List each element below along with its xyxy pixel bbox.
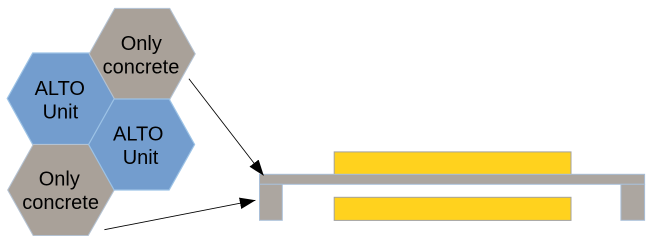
svg-text:Only: Only bbox=[39, 169, 80, 191]
right support column bbox=[621, 184, 645, 220]
svg-text:ALTO: ALTO bbox=[35, 78, 85, 100]
bottom yellow slab bbox=[334, 197, 571, 220]
hexagon H3 blue "ALTO Unit" (middle-right) bbox=[89, 99, 195, 190]
horizontal deck bar bbox=[260, 174, 645, 184]
left support column bbox=[260, 184, 283, 220]
svg-text:Only: Only bbox=[121, 33, 162, 55]
svg-text:Unit: Unit bbox=[123, 147, 159, 169]
svg-text:concrete: concrete bbox=[22, 192, 99, 214]
hexagon H4 gray "Only concrete" (bottom-left) bbox=[8, 145, 115, 236]
svg-text:concrete: concrete bbox=[103, 56, 180, 78]
hexagon H1 gray "Only concrete" (top-right) bbox=[89, 8, 195, 99]
arrow A1: top Only-concrete hexagon to bar corner bbox=[189, 79, 264, 176]
top yellow slab bbox=[334, 152, 571, 175]
hexagon H2 blue "ALTO Unit" (middle-left) bbox=[7, 53, 117, 145]
svg-text:ALTO: ALTO bbox=[113, 123, 163, 145]
svg-text:Unit: Unit bbox=[43, 101, 79, 123]
arrow A2: bottom Only-concrete hexagon to left column bbox=[104, 200, 255, 229]
